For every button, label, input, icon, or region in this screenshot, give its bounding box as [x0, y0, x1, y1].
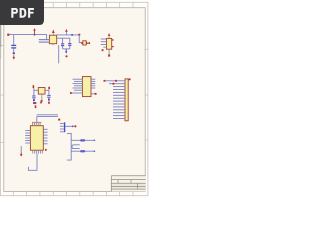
power flag P13	[35, 105, 37, 108]
junction	[48, 99, 50, 101]
wire	[25, 131, 30, 144]
pin marks	[33, 150, 43, 153]
wire	[13, 48, 15, 52]
wire	[67, 133, 95, 160]
wire	[43, 129, 47, 144]
wire	[28, 154, 37, 171]
power flag P6	[102, 49, 104, 51]
power flag P14	[58, 119, 60, 121]
wire	[41, 94, 43, 100]
diode D3	[80, 150, 85, 152]
power flag P9	[108, 54, 110, 56]
wire	[20, 146, 22, 152]
power flag P15	[45, 149, 47, 151]
wire	[60, 123, 64, 131]
wire	[71, 92, 83, 94]
power flag P7	[108, 33, 111, 38]
wire	[91, 79, 95, 94]
junction	[13, 52, 15, 54]
capacitor C2	[61, 44, 64, 46]
junction	[35, 102, 37, 104]
ground G2	[65, 49, 68, 58]
wire	[63, 48, 70, 50]
page edge shadow	[0, 25, 1, 59]
junction	[94, 140, 96, 153]
title block (decorative)	[111, 176, 145, 192]
wire	[39, 40, 50, 43]
power flag P1	[7, 34, 9, 36]
power flag P12	[129, 78, 131, 80]
frame border (decorative)	[0, 2, 148, 195]
wire	[48, 97, 50, 98]
connector J1	[125, 79, 128, 121]
capacitor C5	[47, 95, 50, 97]
power flag P8	[112, 39, 114, 48]
wire	[108, 49, 110, 54]
wire	[69, 46, 71, 49]
ground G4	[20, 153, 23, 157]
ground G3	[33, 102, 35, 104]
junction	[34, 34, 36, 36]
capacitor C3	[68, 44, 71, 46]
capacitor C6	[72, 145, 80, 149]
power flag P3	[52, 29, 55, 35]
power flag P11	[70, 92, 72, 94]
diode D2	[80, 139, 85, 141]
wire	[62, 46, 64, 49]
ground G6	[41, 100, 43, 103]
crystal X1	[38, 88, 45, 95]
wire	[65, 125, 74, 127]
oscillator U2	[107, 38, 112, 49]
junction	[104, 80, 118, 85]
junction	[78, 34, 80, 36]
capacitor C4	[32, 96, 35, 98]
wire	[62, 38, 64, 43]
power flag P18	[40, 100, 42, 104]
wire	[37, 115, 58, 123]
power flag P2	[33, 28, 36, 34]
wire	[34, 88, 49, 95]
wire	[57, 37, 70, 39]
wire	[104, 81, 125, 119]
junction	[33, 99, 35, 101]
voltage regulator U1	[49, 35, 56, 44]
PDF badge	[0, 0, 44, 25]
wire	[33, 98, 35, 99]
IC U3	[82, 77, 91, 97]
page background	[0, 0, 149, 198]
wire	[101, 39, 107, 47]
ground G1	[13, 55, 16, 59]
power flag P10	[33, 85, 50, 89]
microcontroller U4	[30, 126, 43, 151]
power flag P17	[74, 125, 76, 127]
wire	[13, 35, 15, 45]
LED D1	[81, 41, 90, 45]
wire	[57, 34, 79, 36]
pin marks	[32, 122, 42, 123]
connector J2	[64, 122, 65, 132]
wire	[69, 38, 71, 43]
junction	[71, 34, 73, 36]
wire	[9, 35, 47, 40]
wire	[79, 35, 83, 43]
ground G5	[48, 102, 50, 104]
wire	[73, 79, 83, 90]
wire	[53, 44, 59, 64]
capacitor C1	[11, 45, 16, 48]
junction	[95, 93, 97, 95]
power flag P5	[65, 29, 68, 35]
